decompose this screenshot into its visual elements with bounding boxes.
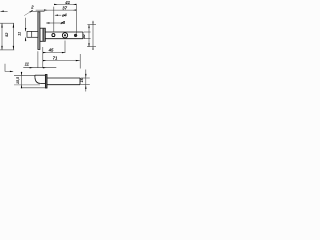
cut-off dim arrow at left edge: [1, 11, 4, 12]
svg-text:71: 71: [53, 56, 58, 61]
tube bottom line: [45, 38, 83, 40]
svg-text:⌀8: ⌀8: [60, 20, 65, 25]
dim 6 vertical (16): [85, 70, 87, 92]
dim line 1 (far left vertical): [1, 23, 3, 50]
tube end cap: [82, 32, 84, 39]
case box behind faceplate: [40, 28, 45, 41]
extension line B left: [0, 22, 14, 24]
dim 5 vertical (15,5): [21, 72, 23, 88]
svg-text:37: 37: [62, 6, 67, 11]
svg-text:11: 11: [25, 62, 30, 67]
tube top line: [45, 31, 83, 33]
extension plate bottom left: [22, 87, 45, 89]
dim line 2 (left vertical 52): [12, 23, 14, 50]
svg-text:15,5: 15,5: [16, 76, 20, 84]
leader diagonal: [24, 12, 30, 16]
latch bolt (side view): [27, 31, 38, 37]
faceplate (side view, vertical bar): [38, 12, 40, 50]
svg-text:42: 42: [82, 33, 86, 39]
svg-text:11: 11: [18, 32, 22, 36]
svg-text:⌀4: ⌀4: [62, 12, 67, 17]
follower hub c2 outer: [62, 33, 67, 38]
cropped second dim line at right edge: [92, 21, 94, 50]
dim 41 line: [54, 3, 76, 5]
fixing hole c3: [74, 34, 77, 37]
extension bolt top left: [14, 74, 35, 76]
dim 37 line: [36, 9, 77, 11]
extension right tube bottom: [81, 84, 90, 86]
extension from plate front down: [37, 51, 39, 68]
dim 3 upper segment (bolt height): [25, 18, 27, 32]
extension mid left: [14, 84, 40, 86]
leader dia4 (screw hole): [55, 14, 62, 16]
svg-text:2: 2: [30, 5, 34, 10]
follower hub c2 inner: [64, 34, 66, 36]
dim 4 right vertical: [88, 25, 90, 47]
leader dia8 (case): [46, 22, 60, 24]
flag leader L-shape: [5, 64, 13, 72]
screw hole c1: [52, 34, 55, 37]
right cut extension upper: [87, 24, 96, 26]
tick slash for 2: [30, 10, 33, 12]
bolt top edge (bottom view): [35, 74, 46, 76]
svg-text:41: 41: [64, 0, 70, 5]
dim 3 lower segment: [25, 37, 27, 41]
dim 71 line: [43, 60, 80, 62]
tube bottom (bottom view): [47, 84, 80, 86]
bolt bottom edge: [40, 82, 45, 84]
bolt tip edge: [34, 75, 36, 77]
extension line from c3 up: [75, 4, 77, 34]
right cut extension lower: [87, 46, 96, 48]
bolt collar line: [31, 31, 33, 37]
extension line A right segment: [29, 11, 44, 13]
extension line C left: [0, 49, 14, 51]
dim 11 line (bolt protrusion): [23, 67, 56, 69]
bolt rounded corner arc: [35, 77, 40, 83]
tube top (bottom view): [47, 77, 80, 79]
extension right tube top: [81, 77, 90, 79]
case box dark core: [42, 28, 44, 41]
right extension tube bottom: [84, 38, 91, 40]
tube end cap (bottom view): [79, 78, 81, 85]
svg-text:45: 45: [48, 47, 54, 52]
right extension tube top: [84, 31, 91, 33]
extension from follower down: [64, 41, 66, 53]
extension line from c1 up: [53, 7, 55, 32]
faceplate bar (bottom view): [45, 75, 47, 89]
extension from tube end down: [79, 54, 81, 69]
dim 45 line: [43, 52, 65, 54]
extension line A left segment: [0, 10, 7, 12]
extension from case front down: [42, 47, 44, 68]
